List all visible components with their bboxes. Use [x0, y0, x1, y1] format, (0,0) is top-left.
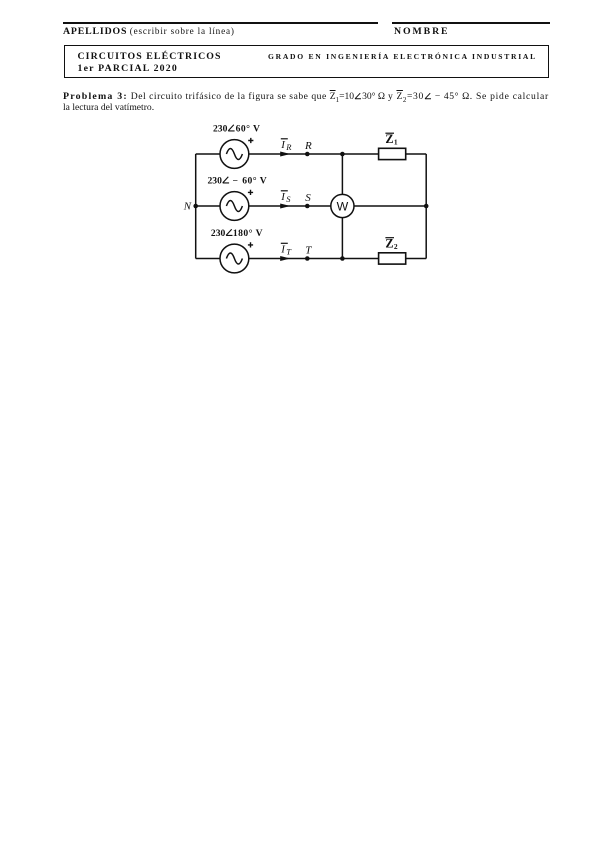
wire R row: Z1 to right bus [406, 153, 427, 155]
impedance Z1 [379, 148, 406, 159]
top rule right (NOMBRE line) [392, 22, 550, 24]
plus sign of V_R [248, 138, 253, 143]
plus sign of V_T [248, 242, 253, 247]
junction dot right bus at S row [424, 204, 429, 209]
course title line 1 [78, 51, 222, 62]
svg-text:Z: Z [385, 237, 393, 251]
node S dot [305, 204, 310, 209]
value label 230∠60° V [213, 123, 260, 134]
node R dot [305, 152, 310, 157]
problem statement line 2 [63, 102, 154, 113]
label Z2 [385, 237, 398, 252]
wire T row: Z2 to right bus [406, 258, 427, 260]
svg-text:230: 230 [208, 175, 223, 186]
impedance Z2 [379, 253, 406, 264]
junction dot T row tap [340, 256, 345, 261]
svg-text:60° V: 60° V [242, 175, 267, 186]
svg-text:2: 2 [394, 242, 398, 251]
svg-text:R: R [304, 140, 312, 152]
node T dot [305, 256, 310, 261]
wire left vertical bus (N bus) [195, 154, 197, 259]
header box [64, 45, 549, 78]
source V_S 230∠-60° V [220, 192, 249, 221]
junction dot R row tap [340, 152, 345, 157]
NOMBRE caption [394, 26, 450, 37]
label I_S [280, 191, 291, 204]
problem statement line 1 [63, 91, 549, 104]
svg-text:230: 230 [211, 228, 226, 239]
label N [183, 201, 192, 213]
label Z1 [385, 132, 398, 147]
wire R row: bus to source [196, 153, 220, 155]
wire S row: N to source [196, 205, 220, 207]
svg-text:Z: Z [385, 132, 393, 146]
svg-text:N: N [183, 201, 192, 213]
svg-text:1: 1 [394, 138, 398, 147]
current arrow I_R [280, 151, 290, 156]
label S [305, 192, 311, 204]
label R [304, 140, 312, 152]
plus sign of V_S [248, 190, 253, 195]
degree name [268, 52, 537, 61]
label I_R [280, 139, 292, 152]
node N dot [193, 204, 198, 209]
svg-text:T: T [286, 246, 292, 256]
svg-text:R: R [285, 142, 292, 152]
current arrow I_S [280, 203, 290, 208]
label I_T [280, 243, 292, 256]
APELLIDOS caption [63, 26, 235, 37]
wire T row: source to junction and Z2 [249, 258, 379, 260]
svg-text:T: T [305, 244, 312, 256]
top rule left (APELLIDOS line) [63, 22, 378, 24]
wire R row: source to node R and junction and Z1 [249, 153, 379, 155]
wire S row: wattmeter to right bus [354, 205, 426, 207]
svg-text:60° V: 60° V [236, 123, 261, 134]
wire S row: source to wattmeter [249, 205, 331, 207]
value label 230∠−60° V [208, 175, 268, 186]
svg-text:230: 230 [213, 123, 228, 134]
value label 230∠180° V [211, 228, 263, 239]
wire right vertical bus [425, 154, 427, 259]
wire wattmeter vertical tap upper [341, 154, 343, 194]
svg-text:S: S [305, 192, 311, 204]
wire T row: bus to source [196, 258, 220, 260]
current arrow I_T [280, 256, 290, 261]
svg-text:W: W [337, 200, 349, 214]
label T [305, 244, 312, 256]
svg-text:−: − [233, 175, 238, 186]
wire wattmeter vertical tap lower [341, 218, 343, 259]
svg-text:S: S [286, 194, 291, 204]
course title line 2 [78, 63, 178, 74]
source V_R 230∠60° V [220, 140, 249, 169]
svg-text:180° V: 180° V [233, 228, 263, 239]
source V_T 230∠180° V [220, 244, 249, 273]
wattmeter W [331, 194, 354, 217]
